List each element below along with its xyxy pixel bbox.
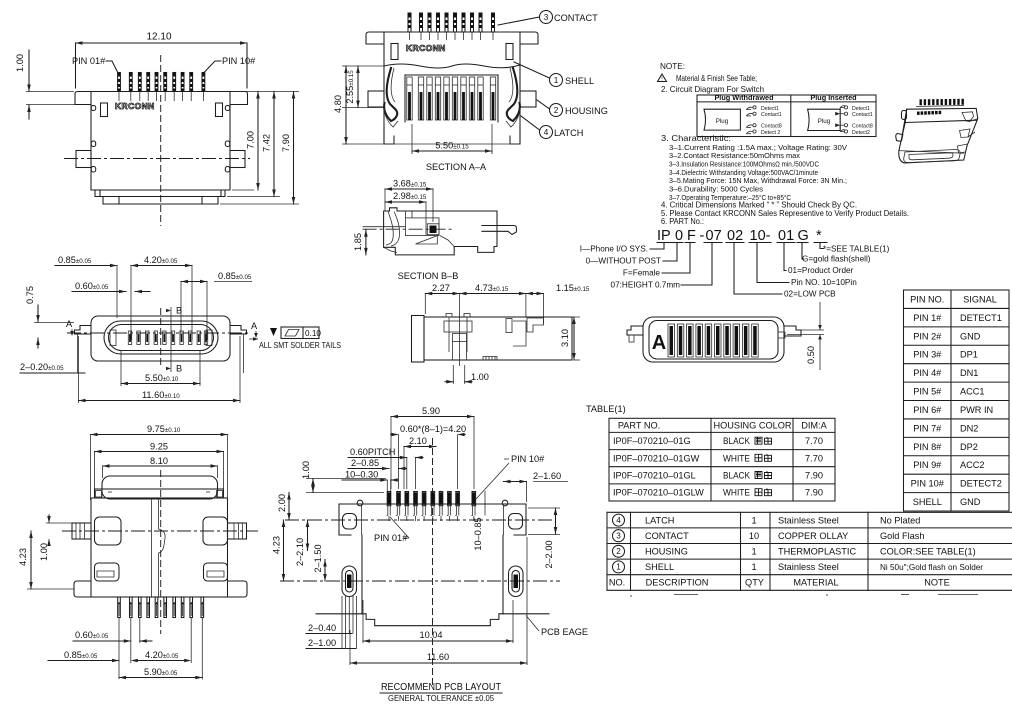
svg-text:KRCONN: KRCONN [115, 101, 155, 111]
svg-text:SHELL: SHELL [645, 562, 674, 572]
svg-text:1: 1 [751, 562, 756, 572]
section A-A view [333, 11, 608, 173]
top view (middle-left) [20, 255, 341, 403]
svg-text:A: A [652, 332, 666, 354]
dim 4.80 [342, 65, 384, 67]
upper inner blocks [95, 517, 122, 545]
svg-text:7.42: 7.42 [262, 134, 272, 152]
svg-text:7.90: 7.90 [805, 488, 823, 498]
svg-text:1.00: 1.00 [301, 461, 311, 479]
svg-text:SHELL: SHELL [565, 76, 594, 86]
latch wedge [416, 236, 438, 244]
svg-text:Stainless Steel: Stainless Steel [778, 515, 839, 525]
pins [128, 331, 131, 345]
flange strip [95, 489, 224, 498]
bottom view (bottom-left) [18, 424, 258, 680]
footprint outline [339, 504, 526, 535]
bom row SHELL [613, 561, 625, 573]
svg-text:Contact8: Contact8 [761, 124, 782, 130]
svg-text:IP0F–070210–01GLW: IP0F–070210–01GLW [613, 488, 704, 498]
contact comb [405, 74, 498, 76]
svg-text:1: 1 [751, 547, 756, 557]
svg-text:10.04: 10.04 [420, 630, 443, 640]
svg-text:Plug: Plug [716, 118, 729, 125]
svg-text:PART NO.: PART NO. [618, 421, 660, 431]
svg-text:0: 0 [675, 228, 683, 244]
switch contact R4 [840, 131, 844, 133]
svg-text:PIN 4#: PIN 4# [913, 368, 942, 378]
body rounded rect [91, 316, 230, 361]
svg-text:GND: GND [960, 497, 981, 507]
left latch spring [384, 68, 397, 121]
svg-text:1: 1 [554, 76, 559, 85]
svg-text:PIN 10#: PIN 10# [222, 56, 256, 66]
svg-text:4: 4 [544, 128, 549, 137]
svg-text:NO.: NO. [609, 578, 625, 588]
switch contact R1 [840, 106, 844, 108]
svg-text:10: 10 [749, 531, 759, 541]
svg-text:LATCH: LATCH [554, 128, 583, 138]
smt note [270, 328, 277, 336]
svg-text:2–1.60: 2–1.60 [533, 471, 561, 481]
svg-text:IP: IP [657, 228, 671, 244]
slot extension lines [341, 596, 343, 649]
inner rectangles [101, 103, 108, 117]
svg-text:DIM:A: DIM:A [801, 421, 827, 431]
svg-text:CONTACT: CONTACT [554, 13, 598, 23]
front face view with A [627, 302, 824, 370]
iso pins ticks [920, 99, 922, 105]
svg-text:Plug Withdrawed: Plug Withdrawed [714, 93, 773, 102]
svg-text:4.23: 4.23 [18, 548, 28, 566]
center channel with latch [151, 498, 153, 597]
table 1 part numbers [586, 404, 835, 501]
switch diagram table [697, 95, 876, 137]
centerline vertical [160, 55, 162, 226]
svg-text:IP0F–070210–01G: IP0F–070210–01G [613, 436, 691, 446]
footprint holes [357, 500, 363, 506]
svg-text:IP0F–070210–01GW: IP0F–070210–01GW [613, 453, 700, 463]
switch contact R3 [840, 124, 844, 126]
svg-text:Detect2: Detect2 [852, 130, 870, 136]
inner details right / tail [506, 319, 512, 333]
body outline [412, 316, 425, 363]
svg-text:Detect1: Detect1 [761, 106, 779, 112]
svg-text:HOUSING: HOUSING [565, 106, 608, 116]
svg-text:0.10: 0.10 [305, 329, 321, 338]
svg-text:10–0.30: 10–0.30 [345, 470, 378, 480]
svg-text:F: F [687, 228, 696, 244]
dim 5.50 bottom [120, 350, 122, 386]
svg-text:F=Female: F=Female [623, 269, 661, 278]
svg-text:GENERAL TOLERANCE ±0.05: GENERAL TOLERANCE ±0.05 [388, 694, 494, 703]
svg-text:Contact1: Contact1 [852, 112, 873, 118]
svg-text:ACC1: ACC1 [960, 387, 985, 397]
svg-text:1.00: 1.00 [471, 372, 489, 382]
switch contact L3 [746, 126, 751, 128]
svg-text:7.70: 7.70 [805, 453, 823, 463]
svg-text:8.10: 8.10 [150, 456, 168, 466]
svg-text:1.00: 1.00 [15, 54, 25, 72]
pads [387, 492, 391, 506]
svg-text:PIN 10#: PIN 10# [911, 479, 945, 489]
iso left tab [902, 111, 907, 120]
pcb edge line [503, 613, 549, 615]
svg-text:IP0F–070210–01GL: IP0F–070210–01GL [613, 471, 696, 481]
svg-text:DN2: DN2 [960, 423, 978, 433]
svg-text:PIN 8#: PIN 8# [913, 442, 942, 452]
contact pins top [408, 13, 411, 32]
svg-text:2–2.00: 2–2.00 [544, 540, 554, 568]
svg-text:HOUSING COLOR: HOUSING COLOR [713, 421, 791, 431]
svg-text:PIN 7#: PIN 7# [913, 423, 942, 433]
svg-text:5.90: 5.90 [422, 406, 440, 416]
balloon 3 CONTACT [540, 11, 553, 24]
svg-text:ACC2: ACC2 [960, 460, 985, 470]
dim 2.55 [357, 66, 359, 108]
svg-text:Stainless Steel: Stainless Steel [778, 562, 839, 572]
svg-text:3.10: 3.10 [560, 329, 570, 347]
leader line right [801, 329, 824, 331]
switch contact L2 [746, 115, 751, 117]
svg-text:B: B [176, 306, 182, 316]
oval slots [342, 566, 357, 597]
svg-text:PIN 5#: PIN 5# [913, 387, 942, 397]
iso logo marks [917, 112, 920, 115]
svg-text:Detect 2: Detect 2 [761, 130, 780, 136]
svg-text:NOTE:: NOTE: [660, 62, 685, 71]
svg-text:DETECT2: DETECT2 [960, 479, 1002, 489]
svg-text:PIN 01#: PIN 01# [374, 533, 408, 543]
bom row CONTACT [613, 530, 625, 542]
dimension 7.00 / 7.42 / 7.90 [232, 91, 299, 93]
svg-text:WHITE: WHITE [723, 488, 750, 498]
inner housing [386, 212, 393, 246]
svg-text:6. PART No.:: 6. PART No.: [661, 217, 704, 226]
svg-text:Pin NO. 10=10Pin: Pin NO. 10=10Pin [791, 278, 857, 287]
svg-text:3: 3 [616, 532, 621, 541]
right latch spring [507, 68, 520, 121]
svg-text:7.90: 7.90 [281, 134, 291, 152]
svg-text:2–2.10: 2–2.10 [295, 538, 305, 566]
iso right latches [962, 112, 974, 122]
svg-text:4.23: 4.23 [272, 536, 282, 554]
side tabs [368, 91, 384, 107]
dim 1.00 [452, 365, 454, 384]
svg-text:Contact1: Contact1 [761, 112, 782, 118]
svg-text:DESCRIPTION: DESCRIPTION [646, 578, 709, 588]
svg-text:PIN 3#: PIN 3# [913, 350, 942, 360]
dim 5.50 section [411, 124, 413, 154]
svg-text:QTY: QTY [745, 578, 764, 588]
side view [412, 283, 590, 384]
svg-text:ALL SMT SOLDER TAILS: ALL SMT SOLDER TAILS [259, 341, 341, 350]
svg-text:2: 2 [616, 547, 621, 556]
svg-text:0.50: 0.50 [806, 346, 816, 364]
side bumps upper [91, 106, 96, 111]
svg-text:DETECT1: DETECT1 [960, 313, 1002, 323]
svg-text:2: 2 [554, 106, 559, 115]
centerline horizontal [64, 158, 250, 160]
svg-text:DN1: DN1 [960, 368, 978, 378]
svg-text:7.00: 7.00 [246, 131, 256, 149]
svg-text:BLACK: BLACK [723, 436, 751, 446]
svg-text:2–0.85: 2–0.85 [351, 458, 379, 468]
svg-text:2.00: 2.00 [277, 494, 287, 512]
right tab [784, 326, 801, 336]
iso bottom slot [904, 150, 960, 163]
switch contact L1 [746, 109, 751, 111]
svg-text:KRCONN: KRCONN [406, 43, 446, 53]
left arm [75, 326, 92, 335]
parts list table [607, 512, 1012, 596]
svg-text:PIN 10#: PIN 10# [511, 454, 545, 464]
dim 3.10 [573, 317, 575, 360]
svg-text:10-: 10- [750, 228, 771, 244]
svg-text:PIN 2#: PIN 2# [913, 331, 942, 341]
svg-text:No Plated: No Plated [880, 515, 920, 525]
bom row HOUSING [613, 545, 625, 557]
svg-text:Gold Flash: Gold Flash [880, 531, 924, 541]
balloon 1 SHELL [550, 74, 563, 87]
dim 1.00 left [48, 514, 50, 523]
part number breakdown [580, 228, 890, 299]
svg-text:HOUSING: HOUSING [645, 547, 688, 557]
svg-text:2–0.40: 2–0.40 [308, 623, 336, 633]
svg-text:CONTACT: CONTACT [645, 531, 689, 541]
svg-text:PIN 01#: PIN 01# [72, 56, 106, 66]
svg-text:PIN 9#: PIN 9# [913, 460, 942, 470]
svg-text:-: - [700, 228, 705, 244]
right cylinder [228, 523, 247, 539]
pin signal table [904, 290, 1010, 511]
svg-text:7.90: 7.90 [805, 471, 823, 481]
pin slots [668, 324, 675, 357]
svg-text:COLOR:SEE TABLE(1): COLOR:SEE TABLE(1) [880, 547, 976, 557]
bottom steps [91, 189, 230, 191]
contact section [405, 218, 439, 236]
bottom ridges [483, 357, 497, 361]
svg-text:WHITE: WHITE [723, 453, 750, 463]
svg-text:G=gold flash(shell): G=gold flash(shell) [802, 255, 871, 264]
bottom pins [118, 597, 121, 618]
svg-text:*=SEE TALBLE(1): *=SEE TALBLE(1) [823, 245, 890, 254]
svg-text:PIN 1#: PIN 1# [913, 313, 942, 323]
balloon 2 HOUSING [550, 104, 563, 117]
svg-text:BLACK: BLACK [723, 471, 751, 481]
svg-text:01=Product Order: 01=Product Order [788, 266, 854, 275]
shell top rounded [102, 476, 218, 499]
centerline [363, 228, 455, 230]
svg-text:PIN 6#: PIN 6# [913, 405, 942, 415]
svg-text:4: 4 [616, 516, 621, 525]
section B-B view [353, 179, 516, 282]
right arm [230, 326, 247, 335]
inner stadium [104, 321, 218, 354]
svg-text:Contact8: Contact8 [852, 124, 873, 130]
notes block [658, 62, 910, 226]
svg-text:Material & Finish See Table;: Material & Finish See Table; [676, 74, 757, 83]
svg-text:NOTE: NOTE [924, 578, 950, 588]
plug left [704, 109, 740, 130]
bottom feet [74, 581, 91, 597]
svg-text:!: ! [661, 77, 662, 83]
svg-text:MATERIAL: MATERIAL [793, 578, 838, 588]
svg-text:2–1.00: 2–1.00 [308, 638, 336, 648]
svg-text:12.10: 12.10 [146, 32, 171, 43]
plug right [808, 109, 841, 130]
svg-text:1: 1 [616, 563, 621, 572]
svg-text:TABLE(1): TABLE(1) [586, 404, 626, 414]
svg-text:1.00: 1.00 [39, 543, 49, 561]
svg-text:PCB EAGE: PCB EAGE [541, 627, 588, 637]
iso top outline [899, 108, 978, 163]
svg-text:DP2: DP2 [960, 442, 978, 452]
svg-text:A: A [251, 321, 258, 331]
svg-text:COPPER OLLAY: COPPER OLLAY [778, 531, 848, 541]
contact pins top row [118, 73, 121, 91]
svg-text:07:HEIGHT 0.7mm: 07:HEIGHT 0.7mm [611, 281, 681, 290]
section B markers [170, 307, 172, 372]
svg-text:10–0.85: 10–0.85 [473, 517, 483, 550]
shell flange [366, 32, 538, 44]
centerlines [62, 530, 258, 532]
svg-text:LATCH: LATCH [645, 515, 674, 525]
caution triangle [658, 74, 667, 82]
inner rects [391, 44, 398, 60]
svg-text:Ni 50u″;Gold flash on Sold: Ni 50u″;Gold flash on Solder [880, 563, 983, 572]
switch contact R2 [840, 113, 844, 115]
left tab [627, 326, 643, 335]
dim 4.23 left [30, 531, 32, 589]
svg-text:7.70: 7.70 [805, 436, 823, 446]
svg-text:0.75: 0.75 [25, 286, 35, 304]
balloon 4 LATCH [540, 126, 553, 139]
svg-text:I—Phone I/O SYS.: I—Phone I/O SYS. [580, 245, 648, 254]
svg-text:02=LOW PCB: 02=LOW PCB [784, 290, 836, 299]
inner details left [448, 317, 450, 352]
centerlines [67, 332, 248, 334]
ear slots [343, 514, 357, 530]
body profile [384, 208, 497, 255]
svg-text:PWR IN: PWR IN [960, 405, 993, 415]
svg-text:PIN NO.: PIN NO. [910, 294, 944, 304]
wavy break line [384, 64, 520, 68]
faint next row artifacts [674, 594, 698, 596]
slot end marks [110, 330, 116, 346]
dim 0.50 [819, 302, 821, 330]
svg-text:0.60*(8–1)=4.20: 0.60*(8–1)=4.20 [400, 424, 466, 434]
left cylinder [72, 523, 91, 539]
svg-text:0.60PITCH: 0.60PITCH [350, 447, 395, 457]
svg-text:B: B [176, 364, 182, 374]
svg-text:SECTION B–B: SECTION B–B [398, 271, 459, 281]
svg-text:3: 3 [544, 13, 549, 22]
body sides and bottom steps [362, 535, 503, 626]
svg-text:3. Characteristic:: 3. Characteristic: [661, 134, 731, 143]
svg-text:01: 01 [778, 228, 794, 244]
svg-text:SECTION A–A: SECTION A–A [426, 162, 487, 172]
svg-text:1.85: 1.85 [353, 233, 363, 251]
lower latch blocks [95, 563, 120, 581]
svg-text:RECOMMEND PCB LAYOUT: RECOMMEND PCB LAYOUT [381, 682, 501, 693]
bom row LATCH [613, 514, 625, 526]
shell body outline [75, 92, 248, 105]
recommend pcb layout view [272, 406, 588, 703]
svg-text:A: A [66, 319, 73, 329]
svg-text:2.27: 2.27 [432, 283, 450, 293]
solder tail right [482, 226, 517, 235]
svg-text:THERMOPLASTIC: THERMOPLASTIC [778, 547, 856, 557]
dim 11.60 [78, 336, 80, 403]
svg-text:Plug Inserted: Plug Inserted [810, 93, 856, 102]
top small tabs [446, 314, 452, 318]
svg-text:1: 1 [751, 515, 756, 525]
svg-text:SHELL: SHELL [913, 497, 942, 507]
svg-text:9.25: 9.25 [150, 442, 168, 452]
main body [91, 498, 228, 597]
svg-text:2–1.50: 2–1.50 [313, 544, 323, 572]
svg-text:02: 02 [727, 228, 743, 244]
svg-text:Detect1: Detect1 [852, 106, 870, 112]
isometric 3d view [896, 99, 978, 163]
svg-text:4.80: 4.80 [333, 95, 343, 113]
front view (top-left) [15, 32, 299, 227]
svg-text:SIGNAL: SIGNAL [963, 294, 997, 304]
svg-text:GND: GND [960, 331, 981, 341]
svg-text:DP1: DP1 [960, 350, 978, 360]
svg-text:*: * [816, 228, 822, 244]
housing cavity outline [383, 64, 385, 144]
svg-text:07: 07 [706, 228, 722, 244]
svg-text:Plug: Plug [818, 118, 831, 125]
svg-text:G: G [798, 228, 809, 244]
switch contact L4 [746, 133, 751, 135]
svg-text:2.10: 2.10 [409, 436, 427, 446]
svg-text:11.60: 11.60 [427, 652, 449, 662]
bottom feet [384, 127, 394, 144]
svg-text:0—WITHOUT POST: 0—WITHOUT POST [586, 257, 661, 266]
side tabs mid [76, 151, 91, 168]
